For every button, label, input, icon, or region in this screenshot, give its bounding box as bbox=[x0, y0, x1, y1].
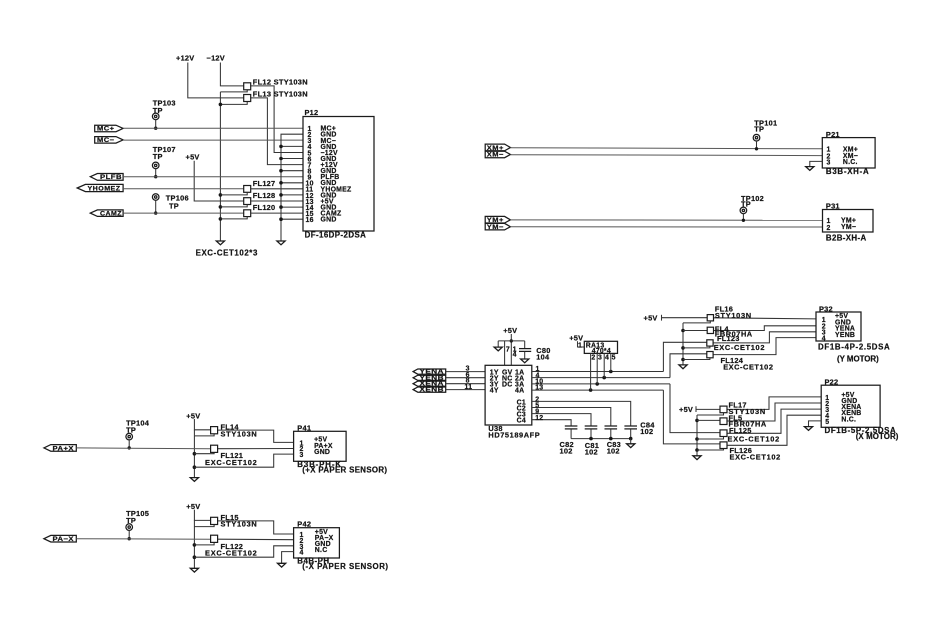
wire P22 pin 5 to ground bbox=[809, 421, 822, 427]
wire YENA riser to FL123 bbox=[663, 342, 706, 371]
node XENB input tag bbox=[413, 387, 446, 394]
connector P31 bbox=[823, 202, 874, 243]
svg-text:+5V: +5V bbox=[569, 333, 583, 342]
svg-text:PLFB: PLFB bbox=[100, 174, 122, 181]
svg-text:+5V: +5V bbox=[186, 502, 200, 511]
node +5V power label at FL16 bbox=[644, 314, 662, 323]
wire P42 filter ground rail bbox=[193, 520, 197, 568]
wire XM- to P21 pin 2 bbox=[510, 154, 822, 157]
node XM- input tag bbox=[485, 151, 510, 159]
wire U38 pin 7 to ground bbox=[498, 341, 510, 365]
svg-text:STY103N: STY103N bbox=[715, 311, 752, 320]
connector P41 bbox=[294, 423, 388, 474]
wire RA13 pin 5 bbox=[611, 353, 616, 371]
wire YENB riser to FL124 bbox=[670, 354, 707, 378]
svg-text:HD75189AFP: HD75189AFP bbox=[488, 431, 540, 440]
svg-text:2: 2 bbox=[827, 225, 831, 232]
svg-text:PA−X: PA−X bbox=[53, 536, 75, 543]
resistor array RA13 470*4 bbox=[584, 341, 617, 355]
wire FL12 ground stub bbox=[220, 90, 247, 92]
svg-text:+5V: +5V bbox=[503, 326, 517, 335]
wire FL13 output to P12 pin 7 bbox=[251, 98, 303, 165]
filter FL124 bbox=[707, 352, 773, 372]
wire U38 C3 pin 9 to C81 bbox=[532, 409, 591, 426]
filter FL14 bbox=[211, 423, 257, 439]
test point TP102 bbox=[740, 194, 764, 222]
svg-text:N.C.: N.C. bbox=[841, 416, 856, 423]
svg-text:YHOMEZ: YHOMEZ bbox=[88, 185, 121, 192]
svg-text:EXC-CET102: EXC-CET102 bbox=[205, 549, 257, 558]
test point TP101 bbox=[753, 118, 777, 150]
wire XENA dropper to FL125 bbox=[670, 384, 720, 433]
svg-text:TP: TP bbox=[169, 201, 179, 210]
svg-text:4: 4 bbox=[513, 351, 517, 358]
wire FL14 output to P41 pin 1 bbox=[218, 430, 294, 442]
svg-text:XM−: XM− bbox=[487, 152, 504, 159]
svg-text:YM−: YM− bbox=[487, 224, 504, 231]
capacitor C83 bbox=[605, 426, 622, 456]
node YENB input tag bbox=[413, 375, 446, 382]
connector P21 bbox=[822, 130, 875, 176]
svg-text:EXC-CET102: EXC-CET102 bbox=[205, 458, 257, 467]
wire PLFB to P12 pin 9 bbox=[123, 176, 303, 178]
wire XM+ to P21 pin 1 bbox=[510, 148, 822, 149]
svg-text:−12V: −12V bbox=[207, 54, 225, 63]
node MC- input tag bbox=[95, 137, 123, 145]
filter FL5 bbox=[720, 414, 767, 429]
wire FL122 output to P42 pin 2 bbox=[218, 538, 294, 541]
filter FL17 bbox=[720, 401, 766, 417]
wire U38 C2 pin 5 to C83 bbox=[532, 403, 611, 426]
wire FL15 ground stub bbox=[194, 525, 214, 527]
ground bbox=[190, 478, 198, 482]
wire FL123 ground stub bbox=[683, 346, 710, 348]
ground bbox=[278, 563, 286, 567]
svg-text:EXC-CET102: EXC-CET102 bbox=[730, 453, 781, 462]
wire YM- to P31 pin 2 bbox=[510, 226, 822, 228]
svg-text:MC−: MC− bbox=[97, 137, 115, 144]
wire +5V feed to FL14 bbox=[194, 419, 210, 430]
wire +5V to U38 pin 14 bbox=[498, 334, 525, 365]
svg-text:(X MOTOR): (X MOTOR) bbox=[856, 432, 899, 441]
node PA+X input tag bbox=[44, 445, 76, 453]
svg-text:+5V: +5V bbox=[186, 152, 200, 161]
svg-text:+5V: +5V bbox=[679, 405, 693, 414]
svg-text:FL120: FL120 bbox=[253, 203, 276, 212]
filter FL13 bbox=[244, 90, 308, 102]
wire FL125 output to P22 pin 3 bbox=[727, 409, 821, 433]
svg-text:(-X PAPER SENSOR): (-X PAPER SENSOR) bbox=[302, 562, 388, 571]
node YENA input tag bbox=[413, 369, 446, 376]
filter FL128 bbox=[220, 191, 303, 207]
svg-text:CAMZ: CAMZ bbox=[100, 211, 122, 218]
svg-text:TP: TP bbox=[153, 152, 163, 161]
wire P12 GND bus bbox=[279, 134, 303, 241]
svg-text:EXC-CET102*3: EXC-CET102*3 bbox=[196, 249, 258, 258]
svg-text:11: 11 bbox=[465, 384, 473, 391]
svg-text:EXC-CET102: EXC-CET102 bbox=[728, 434, 780, 443]
svg-text:+12V: +12V bbox=[176, 54, 194, 63]
node +5V power label at P41 bbox=[186, 411, 200, 420]
wire FL121 ground stub bbox=[194, 452, 214, 455]
svg-text:STY103N: STY103N bbox=[221, 429, 258, 438]
wire FL17 ground stub bbox=[697, 413, 724, 415]
svg-text:XENB: XENB bbox=[420, 387, 445, 394]
wire ground rail to FL4 bbox=[683, 330, 707, 332]
wire -12V feed to FL12 bbox=[220, 63, 243, 86]
wire U38 C1 pin 2 to C84 bbox=[532, 397, 631, 426]
wire XENB to U38 pin 11 bbox=[446, 384, 485, 391]
label pin 14 bbox=[513, 347, 517, 359]
node -12V power label bbox=[207, 54, 225, 63]
wire YM+ to P31 pin 1 bbox=[510, 219, 822, 221]
svg-text:104: 104 bbox=[536, 353, 550, 362]
wire FL124 ground stub bbox=[683, 358, 710, 360]
test point TP104 bbox=[126, 418, 150, 449]
test point TP103 bbox=[152, 98, 175, 130]
filter FL15 bbox=[211, 513, 257, 529]
svg-text:MC+: MC+ bbox=[97, 126, 115, 133]
filter FL125 bbox=[720, 426, 780, 443]
connector P42 bbox=[294, 520, 389, 571]
connector P12 bbox=[303, 108, 374, 240]
node XENA input tag bbox=[413, 381, 446, 388]
wire MC- to P12 pin 3 bbox=[123, 139, 303, 141]
svg-text:102: 102 bbox=[585, 448, 598, 457]
svg-text:TP: TP bbox=[126, 425, 136, 434]
ground bbox=[190, 568, 198, 572]
wire YENB to U38 pin 6 bbox=[446, 372, 485, 379]
test point TP105 bbox=[126, 509, 149, 541]
svg-text:12: 12 bbox=[535, 415, 543, 422]
svg-text:+5V: +5V bbox=[644, 314, 658, 323]
svg-text:PA+X: PA+X bbox=[53, 445, 75, 452]
svg-text:16: 16 bbox=[306, 217, 314, 224]
svg-text:P12: P12 bbox=[305, 108, 319, 117]
op-amp U38 line receiver bbox=[485, 365, 540, 439]
wire Y filter ground rail bbox=[681, 323, 685, 365]
wire U38 2A pin 4 to FL124 riser bbox=[532, 372, 670, 379]
node YM- input tag bbox=[485, 223, 510, 231]
node XM+ input tag bbox=[485, 144, 510, 152]
svg-text:3: 3 bbox=[300, 452, 304, 459]
svg-text:N.C: N.C bbox=[315, 547, 328, 554]
wire FL124 output to P32 pin 4 bbox=[713, 338, 816, 355]
svg-text:FL13 STY103N: FL13 STY103N bbox=[253, 90, 308, 99]
svg-text:102: 102 bbox=[607, 447, 620, 456]
wire P41 filter ground rail bbox=[193, 430, 197, 478]
wire XENA to U38 pin 8 bbox=[446, 378, 485, 385]
wire FL122 ground stub bbox=[194, 543, 214, 545]
node +5V power label at P42 bbox=[186, 502, 200, 511]
ground bbox=[494, 347, 502, 351]
ground bbox=[521, 359, 529, 363]
wire YENA to U38 pin 3 bbox=[446, 366, 485, 373]
connector P32 bbox=[816, 304, 890, 363]
capacitor C82 bbox=[560, 426, 578, 456]
wire PA+X to FL121 bbox=[76, 447, 210, 450]
wire FL13 ground stub bbox=[220, 102, 247, 105]
svg-text:N.C.: N.C. bbox=[843, 159, 858, 166]
node YHOMEZ output tag bbox=[77, 184, 123, 192]
svg-text:YM−: YM− bbox=[841, 224, 856, 231]
wire FL126 output to P22 pin 4 bbox=[727, 415, 821, 445]
svg-text:102: 102 bbox=[640, 427, 653, 436]
node +5V power label at FL17 bbox=[679, 405, 696, 414]
svg-text:(+X PAPER SENSOR): (+X PAPER SENSOR) bbox=[302, 466, 387, 475]
filter FL120 bbox=[220, 203, 303, 219]
wire U38 C4 pin 12 to C82 bbox=[532, 415, 571, 426]
wire filter ground rail EXC-CET102 bbox=[219, 92, 223, 241]
test point TP107 bbox=[152, 145, 175, 179]
node +5V power label bbox=[186, 152, 200, 161]
wire FL5 output to P22 pin 2 bbox=[727, 403, 821, 421]
wire RA13 pin 2 bbox=[591, 353, 596, 390]
node +12V power label bbox=[176, 54, 194, 63]
filter FL126 bbox=[720, 442, 781, 462]
wire FL16 ground stub bbox=[683, 321, 710, 323]
svg-text:STY103N: STY103N bbox=[221, 520, 258, 529]
connector P22 bbox=[821, 378, 899, 441]
wire +5V feed to FL128 bbox=[194, 161, 244, 201]
filter FL123 bbox=[707, 334, 765, 352]
node YM+ input tag bbox=[485, 216, 510, 224]
svg-text:4: 4 bbox=[822, 335, 826, 342]
svg-text:2: 2 bbox=[591, 354, 595, 361]
svg-text:DC: DC bbox=[502, 381, 512, 388]
svg-text:FL12 STY103N: FL12 STY103N bbox=[253, 77, 308, 86]
svg-text:4A: 4A bbox=[515, 388, 524, 395]
capacitor C81 bbox=[585, 426, 599, 457]
label EXC-CET102*3 bbox=[196, 249, 258, 258]
svg-text:+5V: +5V bbox=[186, 411, 200, 420]
wire FL15 output to P42 pin 1 bbox=[218, 521, 294, 534]
filter FL121 bbox=[205, 445, 257, 467]
wire +5V feed to FL15 bbox=[194, 510, 210, 521]
wire MC+ to P12 pin 1 bbox=[123, 127, 303, 129]
test point TP106 bbox=[152, 194, 188, 215]
wire FL4 output to P32 pin 2 bbox=[714, 326, 817, 331]
wire ground rail to P42 pin 3 bbox=[194, 546, 293, 557]
svg-text:5: 5 bbox=[612, 354, 616, 361]
wire PA-X to FL122 bbox=[76, 538, 210, 541]
ground bbox=[627, 444, 635, 448]
svg-text:(Y MOTOR): (Y MOTOR) bbox=[837, 355, 879, 364]
node MC+ input tag bbox=[95, 125, 123, 133]
filter FL12 bbox=[244, 77, 308, 89]
wire FL125 ground stub bbox=[697, 437, 724, 439]
filter FL122 bbox=[205, 535, 257, 558]
svg-text:FL127: FL127 bbox=[253, 179, 276, 188]
wire U38 3A pin 10 to FL125 dropper bbox=[532, 378, 670, 385]
svg-text:EXC-CET102: EXC-CET102 bbox=[723, 362, 773, 371]
filter FL4 bbox=[707, 324, 753, 338]
wire capacitor ground rail bbox=[571, 437, 632, 444]
wire FL123 output to P32 pin 3 bbox=[713, 332, 816, 343]
wire +5V to RA13 pin 1 bbox=[578, 341, 585, 349]
ground bbox=[806, 167, 814, 171]
svg-text:3: 3 bbox=[598, 354, 602, 361]
node PLFB output tag bbox=[90, 174, 123, 182]
wire FL121 output to P41 pin 2 bbox=[218, 448, 294, 450]
svg-text:GND: GND bbox=[314, 449, 330, 456]
svg-text:B2B-XH-A: B2B-XH-A bbox=[826, 233, 867, 242]
svg-text:3: 3 bbox=[827, 160, 831, 167]
wire ground rail to P41 pin 3 bbox=[194, 454, 293, 467]
svg-text:FL128: FL128 bbox=[253, 191, 276, 200]
wire CAMZ to FL120 bbox=[123, 212, 244, 214]
filter FL16 bbox=[707, 305, 751, 321]
svg-text:4Y: 4Y bbox=[490, 388, 499, 395]
wire X filter ground rail bbox=[695, 415, 699, 456]
node +5V power label at U38 bbox=[503, 326, 517, 335]
wire FL17 output to P22 pin 1 bbox=[727, 397, 821, 410]
node CAMZ output tag bbox=[90, 210, 123, 218]
filter FL127 bbox=[220, 179, 303, 195]
svg-text:C4: C4 bbox=[517, 418, 526, 425]
svg-text:DF1B-4P-2.5DSA: DF1B-4P-2.5DSA bbox=[818, 343, 890, 352]
node +5V power label at RA13 bbox=[569, 333, 583, 342]
ground bbox=[277, 241, 285, 245]
svg-text:EXC-CET102: EXC-CET102 bbox=[714, 343, 765, 352]
svg-text:102: 102 bbox=[560, 447, 573, 456]
wire ground rail to FL5 bbox=[697, 419, 720, 421]
svg-text:13: 13 bbox=[535, 385, 543, 392]
wire FL12 output to P12 pin 5 bbox=[251, 86, 303, 153]
wire P21 pin 3 to ground bbox=[810, 161, 823, 166]
wire RA13 pin 3 bbox=[597, 353, 602, 384]
wire RA13 pin 4 bbox=[604, 353, 609, 377]
wire +5V to FL17 bbox=[696, 408, 720, 410]
svg-text:YENB: YENB bbox=[835, 332, 855, 339]
svg-text:GND: GND bbox=[321, 217, 337, 224]
capacitor C84 bbox=[624, 421, 655, 439]
wire YHOMEZ to FL127 bbox=[123, 188, 244, 190]
ground bbox=[804, 427, 812, 431]
svg-text:B3B-XH-A: B3B-XH-A bbox=[826, 167, 869, 176]
svg-text:4: 4 bbox=[605, 354, 609, 361]
svg-text:7: 7 bbox=[506, 346, 510, 353]
wire +12V feed to FL13 bbox=[188, 63, 244, 98]
ground bbox=[693, 456, 701, 460]
wire U38 4A pin 13 to FL126 dropper bbox=[532, 385, 664, 392]
node PA-X input tag bbox=[44, 535, 76, 543]
capacitor C80 bbox=[519, 341, 551, 362]
svg-text:TP: TP bbox=[754, 124, 764, 133]
ground bbox=[679, 365, 687, 369]
wire P42 pin 4 to ground bbox=[282, 552, 294, 564]
wire +5V to FL16 bbox=[662, 317, 708, 319]
ground bbox=[216, 241, 224, 245]
wire U38 1A pin 1 to FL123 riser bbox=[532, 366, 664, 373]
wire FL126 ground stub bbox=[697, 449, 724, 450]
svg-text:DF-16DP-2DSA: DF-16DP-2DSA bbox=[305, 231, 367, 240]
wire XENB dropper to FL126 bbox=[663, 390, 720, 444]
svg-text:1: 1 bbox=[578, 342, 582, 349]
wire FL14 ground stub bbox=[194, 434, 214, 436]
wire FL16 output to P32 pin 1 bbox=[714, 318, 817, 319]
